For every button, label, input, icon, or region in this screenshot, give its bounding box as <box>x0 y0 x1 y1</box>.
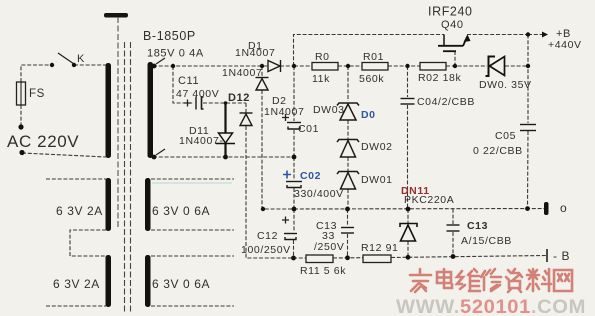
junction dot zener bottom <box>345 207 350 212</box>
wire bottom bus y258 segments <box>293 257 306 259</box>
capacitor C11 <box>196 97 204 110</box>
wire C12 column lower <box>293 240 295 258</box>
wire AC top to switch <box>21 65 52 82</box>
primary winding bar <box>106 63 112 158</box>
capacitor C05 <box>520 125 536 131</box>
svg-text:o: o <box>560 201 567 215</box>
switch K blade <box>58 53 74 64</box>
185V winding bottom terminal with tap arrow <box>152 155 157 160</box>
transformer shield line <box>117 17 119 228</box>
wire D12 line upper <box>245 103 247 113</box>
wire switch to primary top <box>74 64 106 66</box>
junction dot D2 line corner <box>261 207 265 211</box>
svg-text:DW0. 35V: DW0. 35V <box>479 79 532 91</box>
wire 185V top to D1 <box>153 65 268 67</box>
wire gate vertical of Q40 <box>454 51 456 66</box>
wire DN11 column lower <box>407 241 409 257</box>
AC terminal top <box>18 124 23 129</box>
wire C12 column upper <box>293 209 295 232</box>
junction dot D11 top <box>224 101 228 105</box>
junction dot C01 bottom <box>292 155 297 160</box>
svg-text:K: K <box>77 53 85 65</box>
svg-text:R0: R0 <box>315 51 330 63</box>
svg-text:1N4007: 1N4007 <box>222 67 262 79</box>
svg-text:6 3V 0 6A: 6 3V 0 6A <box>152 204 210 218</box>
svg-text:1N4007: 1N4007 <box>264 106 304 118</box>
wire C11 right to D12 corner <box>203 102 246 104</box>
wire +B stub <box>528 34 544 36</box>
wire C13a column upper <box>347 209 349 226</box>
svg-text:100/250V: 100/250V <box>241 244 291 256</box>
transformer core line 1 <box>124 42 126 312</box>
wire C02 column upper <box>293 157 295 180</box>
svg-text:+440V: +440V <box>548 39 582 51</box>
svg-text:A/15/CBB: A/15/CBB <box>461 235 512 247</box>
transformer core line 2 <box>130 42 132 312</box>
resistor R02 <box>420 63 446 71</box>
wire R0 to zener node <box>338 65 362 67</box>
wire R02 to gate node and DW0 <box>446 65 487 67</box>
wire C01 column lower <box>293 130 295 157</box>
+B rail arrowhead <box>542 32 548 38</box>
svg-text:560k: 560k <box>359 73 384 85</box>
diode D2 <box>256 78 269 91</box>
svg-text:185V 0 4A: 185V 0 4A <box>147 48 204 60</box>
wire secondary 6.3V-0.6A top <box>151 178 234 180</box>
wire D2 line lower to bottom bus <box>262 90 294 209</box>
wire node P to R0 <box>294 65 312 67</box>
junction dot DW0 output <box>526 64 530 68</box>
wire D2 line upper <box>261 66 263 77</box>
svg-text:DW02: DW02 <box>361 141 393 153</box>
svg-text:47 400V: 47 400V <box>176 88 219 100</box>
terminal o (B+ output socket) <box>544 202 549 215</box>
wire C13b column upper <box>452 209 454 224</box>
svg-text:6 3V 0 6A: 6 3V 0 6A <box>152 277 210 291</box>
wire C11 branch vertical <box>173 66 194 103</box>
zener DW03 <box>337 103 359 120</box>
capacitor C04 <box>401 99 415 105</box>
secondary 185V winding bar <box>148 62 154 158</box>
svg-text:1N4007-: 1N4007- <box>179 135 223 147</box>
winding bar 6.3V 0.6A (upper right) <box>145 178 151 231</box>
diode D11 (bold line) <box>224 103 226 133</box>
zener DW0 <box>486 57 505 77</box>
wire zener chain segments <box>347 66 349 101</box>
svg-text:11k: 11k <box>312 73 330 85</box>
junction dot C13b bottom <box>451 254 456 259</box>
svg-text:R01: R01 <box>363 51 384 63</box>
svg-text:C04/2/CBB: C04/2/CBB <box>417 96 475 108</box>
wire winding 6.3V-2A(2) bottom <box>46 305 106 307</box>
svg-text:B-1850P: B-1850P <box>143 29 196 43</box>
junction dot DN11 top <box>406 207 411 212</box>
svg-text:1N4007: 1N4007 <box>235 47 275 59</box>
diode D1 <box>268 60 281 72</box>
wire winding 6.3V-2A top <box>46 178 106 180</box>
wire C13a column lower <box>347 234 349 258</box>
svg-text:330/400V: 330/400V <box>294 188 344 200</box>
wire bottom bus y209 <box>294 208 544 211</box>
junction dot gate node <box>453 64 457 68</box>
wire secondary 6.3V-0.6A(2) bottom <box>151 305 234 307</box>
capacitor C12 <box>284 234 297 240</box>
watermark chinese characters <box>410 269 572 292</box>
AC terminal bottom <box>19 150 24 155</box>
capacitor C02 <box>286 182 302 188</box>
185V winding top terminal with tap arrow <box>152 64 157 69</box>
winding bar 6.3V 0.6A (lower right) <box>145 255 151 307</box>
wire DW0 to output column <box>505 65 528 67</box>
capacitor C13 33/250V <box>341 228 354 234</box>
svg-text:6 3V 2A: 6 3V 2A <box>56 204 103 218</box>
svg-text:C13: C13 <box>467 220 488 232</box>
wire D12 line lower <box>246 126 293 258</box>
svg-text:AC 220V: AC 220V <box>7 132 79 151</box>
wire top rail from node P to Q40 drain <box>294 35 445 67</box>
resistor R0 <box>312 63 338 71</box>
resistor R01 <box>362 63 388 71</box>
C02 plus sign (blue) <box>283 171 291 179</box>
svg-text:R11 5 6k: R11 5 6k <box>300 265 346 277</box>
wire fuse bottom to AC terminal <box>20 105 22 127</box>
faint cyan scan artifact <box>152 182 232 184</box>
resistor R11 <box>306 255 333 263</box>
svg-text:R02 18k: R02 18k <box>418 72 461 84</box>
C01 plus sign <box>282 114 289 121</box>
diode D12 <box>240 113 253 126</box>
svg-text:- B: - B <box>553 249 570 263</box>
svg-text:C02: C02 <box>300 170 321 182</box>
C11 plus sign <box>184 100 191 107</box>
svg-text:DW03: DW03 <box>313 104 345 116</box>
wire D1 cathode to node P <box>280 65 294 67</box>
svg-text:C12: C12 <box>257 230 278 242</box>
wire C04 column <box>407 66 409 97</box>
junction dot C05 bottom <box>525 206 530 211</box>
junction dot C04 top <box>405 64 409 68</box>
svg-text:WWW.520101.COM: WWW.520101.COM <box>396 296 586 316</box>
svg-text:0 22/CBB: 0 22/CBB <box>473 145 523 157</box>
winding bar 6.3V 2A (lower left) <box>106 255 112 307</box>
junction dot D11 bottom <box>223 155 228 160</box>
transistor Q40 MOSFET body <box>438 35 468 52</box>
junction dot DN11 bottom <box>406 255 411 260</box>
svg-text:Q40: Q40 <box>441 19 464 31</box>
wire series link between 6.3V 2A windings <box>70 230 106 256</box>
svg-text:FS: FS <box>29 88 45 100</box>
svg-text:/250V: /250V <box>314 241 344 253</box>
svg-text:PKC220A: PKC220A <box>404 194 454 206</box>
wire C05 column <box>527 35 529 124</box>
junction dot C02 bottom <box>292 207 297 212</box>
wire AC bottom to primary bottom <box>22 153 106 157</box>
wire C02 column lower <box>293 188 295 209</box>
svg-text:IRF240: IRF240 <box>428 5 473 19</box>
svg-text:R12 91: R12 91 <box>361 242 398 254</box>
svg-text:6 3V 2A: 6 3V 2A <box>53 277 100 291</box>
wire secondary 6.3V-0.6A(2) top <box>151 255 234 257</box>
svg-text:D0: D0 <box>361 109 376 121</box>
zener DW02 <box>337 140 359 158</box>
terminal -B bar <box>546 249 548 262</box>
diode DN11 <box>400 224 417 242</box>
junction dot output top rail <box>526 32 530 36</box>
wire rail Q40 source to +B column <box>467 34 528 36</box>
junction dot zener top <box>346 64 350 68</box>
junction dot node P <box>292 64 296 68</box>
svg-text:C01: C01 <box>298 123 319 135</box>
svg-text:C11: C11 <box>178 75 199 87</box>
switch contact dots <box>50 63 54 67</box>
zener DW01 <box>337 172 359 190</box>
junction dot C13a bottom <box>345 255 350 260</box>
winding bar 6.3V 2A (upper left) <box>106 178 112 231</box>
resistor R12 <box>363 255 391 263</box>
junction dot D2 top <box>260 64 264 68</box>
wire C01 column upper <box>293 66 295 121</box>
wire R01 to C04 node <box>388 65 420 67</box>
wire secondary 6.3V-0.6A bottom <box>151 229 234 231</box>
wire 185V bottom to C01 bottom node <box>153 156 294 158</box>
svg-text:D12: D12 <box>228 92 250 104</box>
wire DN11 column upper <box>407 209 409 223</box>
svg-text:DW01: DW01 <box>361 174 393 186</box>
C12 plus sign <box>282 217 289 224</box>
transformer shield top bar <box>104 13 128 18</box>
junction dot C12 bottom <box>291 256 296 261</box>
junction dot C11 branch <box>171 64 175 68</box>
capacitor C13 A/15/CBB <box>447 225 460 231</box>
capacitor C01 <box>287 123 301 130</box>
wire C13b column lower <box>452 232 454 257</box>
svg-text:C05: C05 <box>495 130 516 142</box>
Q40 source arrowhead <box>464 35 471 43</box>
fuse FS <box>17 82 26 105</box>
